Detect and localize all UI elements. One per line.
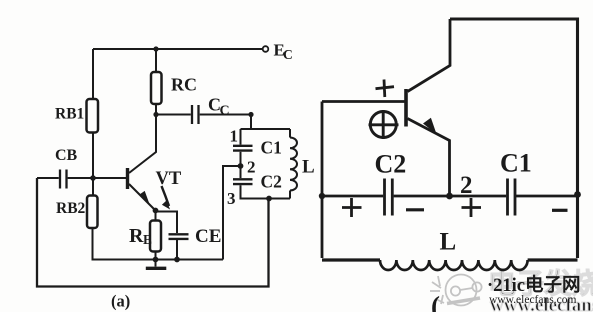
- svg-text:C: C: [220, 104, 230, 119]
- svg-text:L: L: [440, 229, 457, 256]
- svg-text:C1: C1: [500, 149, 532, 178]
- svg-text:C1: C1: [261, 138, 282, 158]
- svg-text:E: E: [143, 232, 152, 247]
- svg-text:C: C: [283, 47, 293, 62]
- svg-text:C2: C2: [375, 150, 407, 179]
- svg-text:CE: CE: [195, 226, 221, 247]
- svg-text:RC: RC: [171, 75, 197, 95]
- svg-text:(a): (a): [111, 292, 130, 311]
- svg-text:VT: VT: [156, 169, 182, 189]
- svg-text:1: 1: [230, 127, 239, 146]
- svg-text:(: (: [431, 291, 440, 312]
- svg-text:C2: C2: [261, 172, 282, 192]
- svg-text:www.elecfans.com: www.elecfans.com: [489, 294, 576, 306]
- svg-text:RB1: RB1: [55, 106, 84, 123]
- svg-text:3: 3: [227, 189, 236, 208]
- svg-text:RB2: RB2: [56, 200, 86, 217]
- svg-text:R: R: [129, 225, 144, 247]
- svg-text:L: L: [302, 157, 315, 178]
- svg-text:2: 2: [460, 172, 473, 199]
- svg-text:CB: CB: [55, 147, 78, 164]
- svg-text:·21ic电子网: ·21ic电子网: [487, 274, 581, 296]
- svg-text:2: 2: [247, 158, 256, 177]
